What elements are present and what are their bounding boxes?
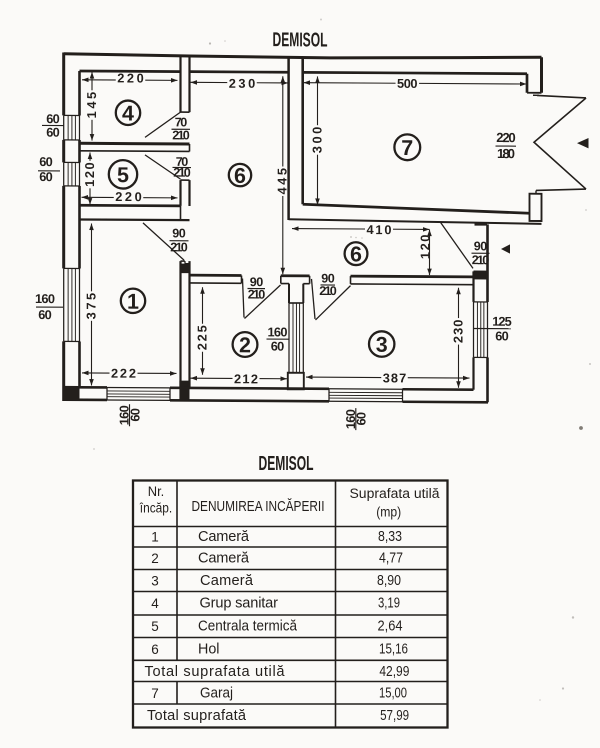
svg-text:60: 60	[271, 339, 285, 354]
table column separator 1	[176, 481, 178, 661]
svg-text:210: 210	[248, 288, 265, 302]
svg-text:210: 210	[173, 166, 191, 180]
south wall inner face	[80, 386, 108, 389]
svg-text:3,19: 3,19	[378, 596, 400, 612]
dim 212 room2	[191, 377, 288, 380]
svg-text:8,33: 8,33	[378, 529, 402, 545]
dim 120 room5	[89, 153, 91, 205]
door room3 leaf 90/210	[312, 279, 316, 319]
svg-text:60: 60	[495, 328, 509, 343]
svg-text:3: 3	[151, 573, 159, 588]
svg-text:125: 125	[492, 314, 511, 329]
svg-text:160: 160	[268, 324, 288, 339]
garage door top edge	[537, 95, 586, 97]
table frame	[133, 481, 448, 728]
south wall outer face	[64, 398, 107, 401]
door room4 leaf 70/210	[145, 112, 181, 138]
svg-text:500: 500	[397, 76, 418, 91]
dim 222 room1	[82, 372, 177, 375]
svg-text:1: 1	[151, 530, 159, 545]
window 60/60 room5 left wall	[63, 162, 65, 186]
svg-text:DEMISOL: DEMISOL	[259, 453, 314, 475]
svg-text:15,16: 15,16	[379, 641, 408, 657]
notch at entrance door head	[475, 222, 488, 225]
svg-text:145: 145	[84, 92, 99, 119]
table group	[93, 19, 591, 728]
svg-text:160: 160	[35, 291, 55, 306]
svg-text:6: 6	[350, 242, 362, 266]
corridor south wall segment A	[190, 274, 242, 277]
scan specks	[209, 42, 211, 44]
dim 300 garage	[317, 76, 319, 205]
outer wall left	[62, 52, 65, 115]
svg-text:222: 222	[111, 366, 136, 381]
room number 7	[394, 134, 420, 160]
svg-text:Suprafata utilă: Suprafata utilă	[350, 486, 440, 502]
svg-text:60: 60	[39, 169, 53, 184]
entrance door leaf 90/210	[440, 222, 473, 269]
svg-text:410: 410	[366, 222, 391, 237]
wall room2/room3 upper stem	[288, 284, 290, 303]
corridor south wall stub between doors (T-block)	[281, 274, 310, 277]
svg-text:(mp): (mp)	[376, 505, 401, 520]
svg-text:60: 60	[38, 307, 52, 322]
room number 3	[369, 331, 394, 357]
svg-text:210: 210	[319, 284, 337, 298]
svg-text:Garaj: Garaj	[200, 685, 233, 701]
svg-text:DEMISOL: DEMISOL	[272, 29, 327, 51]
svg-text:90: 90	[474, 239, 488, 253]
svg-text:57,99: 57,99	[380, 708, 409, 724]
dim 220 room4	[82, 79, 178, 82]
svg-text:3: 3	[376, 333, 388, 357]
top wall inner face room4	[80, 70, 181, 73]
wall hall/garage	[287, 57, 290, 220]
svg-text:220: 220	[115, 189, 142, 204]
svg-text:225: 225	[195, 325, 210, 350]
svg-text:60: 60	[46, 125, 60, 140]
window 60/60 room4 left wall	[63, 115, 65, 139]
svg-text:Nr.: Nr.	[148, 484, 165, 499]
svg-text:5: 5	[151, 619, 159, 634]
svg-text:230: 230	[451, 319, 466, 343]
garage bottom-right pier	[530, 194, 542, 221]
wall room1/room2	[179, 261, 181, 388]
floor plan group (slight scan skew)	[35, 28, 589, 432]
svg-text:6: 6	[151, 642, 159, 657]
svg-text:4: 4	[151, 596, 159, 611]
svg-text:Cameră: Cameră	[198, 551, 250, 567]
svg-text:Total suprafata utilă: Total suprafata utilă	[145, 664, 286, 680]
room number 2	[233, 332, 258, 357]
door room1 leaf 90/210	[143, 223, 184, 260]
svg-text:încăp.: încăp.	[139, 500, 172, 515]
dim 145 room4	[91, 72, 93, 141]
dim 410 corridor	[292, 228, 430, 231]
svg-text:60: 60	[39, 154, 53, 169]
wall hall west upper pier	[179, 56, 181, 112]
room number 4	[116, 101, 140, 126]
svg-text:4,77: 4,77	[379, 551, 403, 567]
svg-text:220: 220	[117, 70, 144, 85]
door room5 leaf 70/210	[145, 155, 181, 179]
svg-text:387: 387	[383, 370, 407, 385]
entrance arrow garage	[577, 138, 589, 148]
svg-text:120: 120	[417, 234, 432, 259]
dim 230 room3	[458, 288, 460, 388]
wall room2/room3 bottom block	[288, 373, 304, 390]
svg-text:210: 210	[472, 253, 490, 267]
svg-text:DENUMIREA INCĂPERII: DENUMIREA INCĂPERII	[192, 498, 325, 515]
outer wall top	[64, 54, 542, 59]
dim 445 hall	[282, 76, 284, 274]
window 160/60 between rooms 2-3	[288, 303, 290, 373]
wall room5/room1	[80, 204, 181, 207]
svg-text:2: 2	[239, 333, 251, 357]
dim 500 garage	[304, 83, 527, 84]
svg-text:210: 210	[172, 128, 190, 142]
door1 pier block	[181, 264, 190, 274]
dim 120 corridor	[429, 230, 431, 276]
svg-text:90: 90	[172, 226, 186, 240]
room number 1	[121, 289, 145, 314]
east wall outer face	[486, 224, 489, 302]
dim 230 hall top	[191, 81, 289, 84]
svg-text:210: 210	[170, 240, 188, 254]
svg-text:220: 220	[496, 130, 515, 145]
svg-text:445: 445	[275, 168, 290, 195]
svg-text:42,99: 42,99	[379, 664, 409, 680]
wall room1/room2 bottom block	[179, 381, 189, 401]
svg-text:2: 2	[151, 551, 159, 566]
svg-text:15,00: 15,00	[379, 685, 407, 701]
svg-text:6: 6	[234, 164, 246, 188]
dim 220 room5	[82, 196, 178, 199]
wall room4/room5	[80, 142, 190, 146]
dim 387 room3	[306, 376, 470, 379]
garage south wall inner face	[303, 204, 530, 213]
dim 375 room1	[91, 224, 93, 386]
bottom-left corner fill	[64, 386, 80, 401]
svg-text:60: 60	[354, 412, 369, 426]
wall hall west pier below door5	[179, 180, 181, 206]
garage top-right corner pier	[540, 57, 543, 92]
svg-text:7: 7	[401, 136, 413, 160]
top wall inner face hall	[190, 70, 289, 73]
svg-text:212: 212	[234, 371, 258, 386]
svg-text:375: 375	[84, 293, 99, 320]
east wall inner face	[472, 271, 474, 302]
svg-text:Hol: Hol	[198, 641, 220, 657]
svg-text:Cameră: Cameră	[198, 529, 250, 545]
garage door bottom edge	[536, 189, 586, 191]
svg-text:1: 1	[127, 290, 139, 314]
table row lines	[133, 526, 448, 528]
dim 225 room2	[202, 287, 204, 375]
room number 5	[109, 160, 137, 189]
svg-text:5: 5	[117, 163, 129, 187]
table column separator 2	[335, 481, 337, 728]
svg-text:180: 180	[497, 146, 515, 161]
svg-text:60: 60	[127, 408, 142, 422]
svg-text:120: 120	[82, 162, 97, 187]
entrance pier cap	[474, 270, 488, 272]
svg-text:Total suprafată: Total suprafată	[147, 708, 247, 724]
svg-text:Grup sanitar: Grup sanitar	[200, 596, 279, 612]
svg-text:4: 4	[122, 102, 134, 126]
entrance arrow corridor	[501, 244, 510, 253]
window 125/60 east wall	[473, 302, 475, 358]
svg-text:70: 70	[175, 115, 188, 129]
window 160/60 room1 left wall	[63, 268, 65, 341]
svg-text:8,90: 8,90	[377, 573, 401, 589]
corridor south wall segment C	[351, 275, 474, 279]
svg-text:230: 230	[229, 76, 256, 91]
door room2 leaf 90/210	[243, 278, 245, 317]
room number 6	[229, 164, 251, 187]
window 160/60 room1 south wall	[107, 386, 170, 388]
room number 6	[345, 242, 368, 265]
garage door chevron	[534, 98, 586, 189]
svg-text:7: 7	[151, 686, 159, 701]
top wall inner face garage	[303, 72, 527, 73]
left wall inner face	[78, 71, 81, 116]
window 160/60 room3 south wall	[329, 388, 403, 390]
svg-text:300: 300	[310, 127, 325, 154]
svg-text:Cameră: Cameră	[200, 573, 254, 589]
garage south wall outer face	[289, 219, 542, 224]
svg-text:2,64: 2,64	[378, 619, 403, 635]
svg-text:Centrala termică: Centrala termică	[198, 619, 298, 635]
